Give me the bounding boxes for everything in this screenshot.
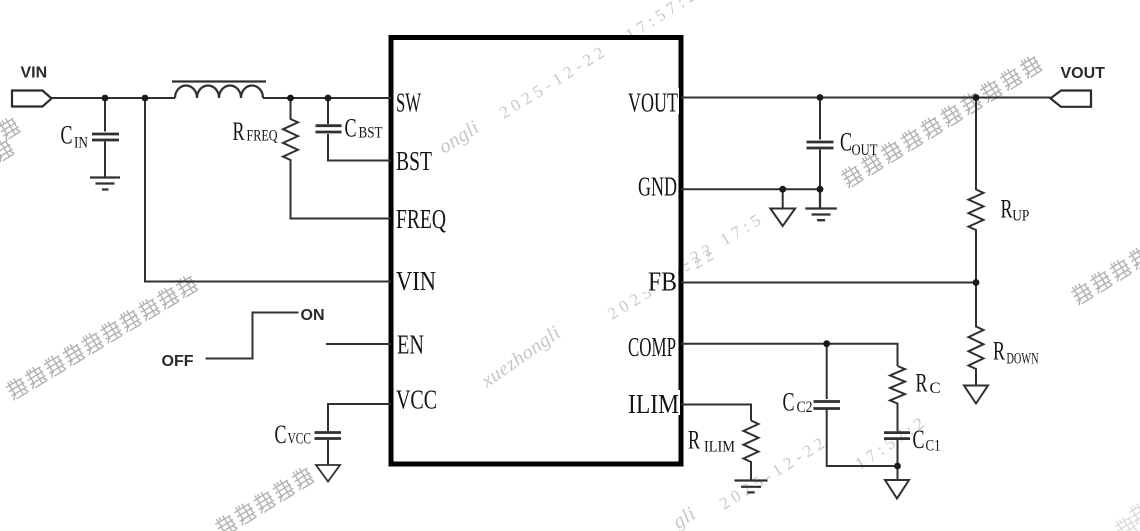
junction node CBST/SW wire bbox=[325, 95, 332, 102]
junction node RUP/VOUT wire bbox=[973, 94, 980, 101]
svg-text:C: C bbox=[275, 420, 287, 449]
junction node CC1/CC2 ground bbox=[894, 463, 901, 470]
wire FB pin bbox=[681, 282, 976, 284]
wire inductor to SW pin bbox=[263, 97, 391, 99]
watermark CJK corner bottom-right bbox=[1113, 500, 1140, 531]
svg-text:FREQ: FREQ bbox=[247, 128, 278, 145]
svg-text:R: R bbox=[233, 117, 245, 146]
svg-text:VIN: VIN bbox=[21, 64, 48, 81]
svg-text:VOUT: VOUT bbox=[1061, 65, 1106, 82]
svg-text:C: C bbox=[345, 114, 357, 143]
inductor L1 bbox=[175, 85, 263, 98]
svg-text:FREQ: FREQ bbox=[396, 204, 446, 234]
ground triangle CVCC bbox=[316, 465, 340, 482]
svg-text:EN: EN bbox=[397, 330, 424, 360]
svg-text:C2: C2 bbox=[797, 399, 813, 416]
junction node CIN/VIN wire bbox=[102, 95, 109, 102]
wire COUT branch bbox=[819, 98, 821, 190]
svg-text:ILIM: ILIM bbox=[704, 439, 735, 456]
svg-text:C1: C1 bbox=[926, 438, 941, 455]
resistor RILIM bbox=[744, 421, 759, 481]
svg-text:C: C bbox=[930, 380, 941, 397]
svg-text:COMP: COMP bbox=[628, 332, 676, 362]
ground earth COUT bbox=[805, 189, 837, 220]
svg-text:ON: ON bbox=[301, 307, 325, 324]
watermark CJK string bottom-left bbox=[4, 273, 199, 401]
wire VIN pin branch bbox=[145, 98, 391, 282]
wire ILIM pin to RILIM bbox=[681, 405, 751, 421]
svg-text:C: C bbox=[783, 388, 795, 417]
ground triangle GND bbox=[770, 189, 795, 226]
junction node RFREQ/SW wire bbox=[287, 95, 294, 102]
svg-text:R: R bbox=[1001, 195, 1013, 224]
svg-text:BST: BST bbox=[396, 146, 432, 176]
wire EN stub bbox=[326, 343, 391, 345]
watermark CJK string right-edge bbox=[1069, 245, 1140, 306]
svg-text:ILIM: ILIM bbox=[628, 389, 679, 419]
svg-text:VIN: VIN bbox=[396, 266, 436, 296]
junction node GND triangle bbox=[779, 186, 786, 193]
junction node COUT/VOUT wire bbox=[817, 94, 824, 101]
terminal VOUT bbox=[1051, 91, 1092, 107]
svg-text:OFF: OFF bbox=[162, 353, 194, 370]
label white backings bbox=[394, 88, 680, 415]
svg-text:DOWN: DOWN bbox=[1007, 351, 1039, 368]
junction node FB/RUP/RDOWN bbox=[973, 279, 980, 286]
junction node CC2/COMP wire bbox=[823, 340, 830, 347]
ground triangle CC1 bbox=[885, 480, 909, 499]
resistor RFREQ bbox=[283, 98, 391, 219]
IC body U1 bbox=[391, 38, 681, 465]
wire CC1 bottom bbox=[897, 440, 899, 466]
wire VIN terminal to inductor bbox=[52, 97, 176, 99]
switch OFF wire bbox=[206, 313, 299, 359]
svg-text:VCC: VCC bbox=[396, 385, 437, 415]
capacitor CIN plates bbox=[92, 134, 119, 140]
svg-text:VOUT: VOUT bbox=[628, 88, 678, 118]
wire VOUT pin to terminal bbox=[681, 97, 1051, 99]
svg-text:BST: BST bbox=[359, 125, 383, 142]
svg-text:IN: IN bbox=[74, 135, 88, 152]
inductor core bar bbox=[172, 80, 266, 82]
junction node VIN-pin branch bbox=[142, 95, 149, 102]
ground earth CIN bbox=[90, 178, 120, 190]
wire COMP pin bbox=[681, 344, 898, 366]
svg-text:C: C bbox=[913, 425, 925, 454]
wire CVCC to ground bbox=[327, 440, 329, 465]
wire CC2 branch bbox=[827, 344, 898, 466]
terminal VIN bbox=[12, 91, 52, 107]
svg-text:GND: GND bbox=[638, 172, 677, 202]
wire ground stub CC1 bbox=[897, 466, 899, 480]
capacitor CVCC plates bbox=[315, 433, 342, 439]
svg-text:UP: UP bbox=[1012, 208, 1029, 225]
capacitor CC1 plates bbox=[884, 433, 910, 439]
svg-text:VCC: VCC bbox=[288, 431, 312, 448]
svg-text:C: C bbox=[61, 121, 73, 150]
ground triangle RDOWN bbox=[964, 386, 988, 404]
svg-text:R: R bbox=[916, 369, 928, 398]
svg-text:R: R bbox=[688, 426, 700, 455]
watermark CJK chars left-edge bbox=[0, 115, 21, 163]
wire VCC pin to CVCC bbox=[328, 404, 391, 431]
watermark CJK string right-upper bbox=[839, 53, 1043, 188]
resistor RDOWN bbox=[969, 283, 984, 386]
svg-text:SW: SW bbox=[396, 88, 421, 118]
junction node COUT/GND wire bbox=[817, 186, 824, 193]
IC body U1 border bbox=[391, 38, 681, 465]
svg-text:FB: FB bbox=[648, 267, 677, 297]
watermark CJK string bottom-center bbox=[213, 465, 315, 531]
capacitor CC2 plates bbox=[814, 402, 841, 409]
capacitor CBST plates bbox=[316, 126, 342, 132]
wire CIN branch bbox=[104, 98, 106, 177]
svg-text:OUT: OUT bbox=[852, 142, 878, 159]
capacitor COUT plates bbox=[807, 142, 834, 148]
resistor RUP bbox=[969, 98, 984, 283]
wire GND pin bbox=[681, 188, 820, 190]
ground earth RILIM bbox=[735, 481, 768, 493]
wire CBST to BST pin bbox=[328, 134, 391, 161]
svg-text:C: C bbox=[840, 128, 852, 157]
wire CBST top bbox=[327, 98, 329, 124]
resistor RC bbox=[890, 366, 905, 431]
svg-text:R: R bbox=[993, 337, 1005, 366]
